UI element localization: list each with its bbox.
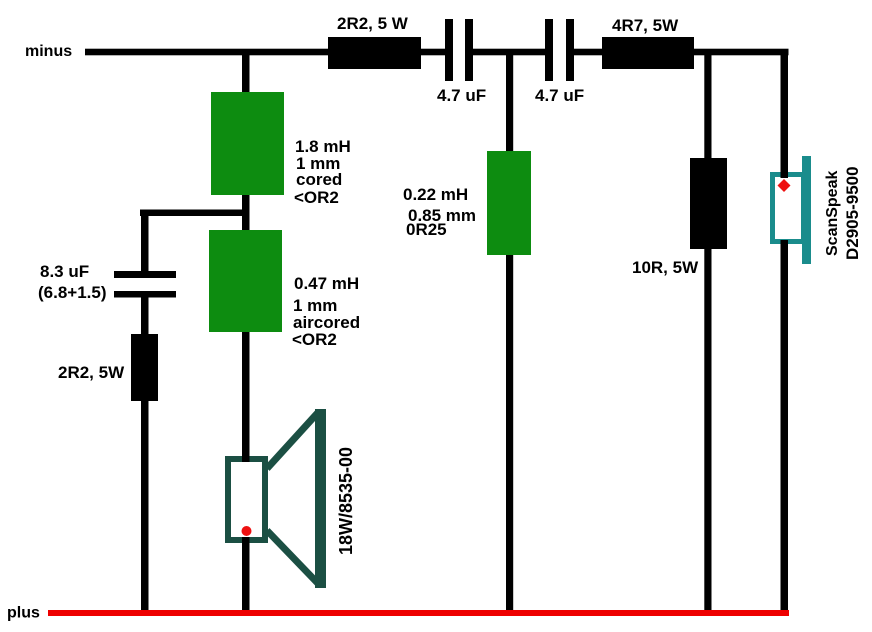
- wire: L3 to plus bus: [506, 253, 513, 616]
- wire: minus bus segment between capacitors: [471, 49, 548, 56]
- resistor 10R 5W: [690, 158, 727, 249]
- svg-text:8.3 uF: 8.3 uF: [40, 262, 89, 281]
- capacitor 8.3uF plate 2: [114, 291, 176, 298]
- wire: minus bus segment right: [572, 49, 789, 56]
- wire: vertical drop to resistor 10R: [704, 52, 711, 159]
- resistor 4R7 5W: [602, 37, 694, 69]
- svg-text:cored: cored: [296, 170, 342, 189]
- wire: capacitor 8.3uF to resistor 2R2 shunt: [141, 296, 149, 337]
- svg-text:D2905-9500: D2905-9500: [843, 166, 862, 260]
- svg-text:18W/8535-00: 18W/8535-00: [336, 447, 356, 555]
- wire: tweeter to plus bus: [781, 240, 789, 616]
- tweeter ScanSpeak D2905-9500 symbol: [773, 156, 812, 264]
- svg-text:10R, 5W: 10R, 5W: [632, 258, 699, 277]
- svg-text:4.7 uF: 4.7 uF: [437, 86, 486, 105]
- wire: minus bus segment left: [85, 49, 447, 56]
- svg-text:0.47 mH: 0.47 mH: [294, 274, 359, 293]
- svg-text:<OR2: <OR2: [294, 188, 339, 207]
- inductor L3 0.22mH (green): [487, 151, 531, 255]
- resistor 2R2 5W series (top): [328, 37, 421, 69]
- svg-text:minus: minus: [25, 43, 72, 60]
- capacitor 8.3uF plate 1: [114, 271, 176, 278]
- svg-text:2R2, 5W: 2R2, 5W: [58, 363, 125, 382]
- wire: woofer to plus bus: [242, 537, 250, 616]
- inductor L1 1.8mH (green): [211, 92, 284, 195]
- wire: resistor 2R2 shunt to plus bus: [141, 398, 149, 616]
- wire: vertical drop minus bus to tweeter: [781, 52, 789, 178]
- tweeter red dot: [778, 179, 791, 192]
- wire: RC shunt vertical to capacitor 8.3uF: [141, 210, 149, 272]
- svg-text:0.22 mH: 0.22 mH: [403, 185, 468, 204]
- wire: vertical drop minus bus to L1: [242, 52, 250, 94]
- capacitor 4.7uF first, plate 2: [465, 19, 473, 81]
- svg-text:<OR2: <OR2: [292, 330, 337, 349]
- wire: branch horizontal to RC shunt: [140, 210, 250, 217]
- inductor L2 0.47mH (green): [209, 230, 282, 332]
- wire: vertical drop minus bus to L3: [506, 52, 513, 153]
- svg-text:ScanSpeak: ScanSpeak: [824, 171, 841, 256]
- wire: L1 to L2: [242, 194, 250, 232]
- woofer 18W/8535-00 symbol: [228, 409, 326, 588]
- woofer red dot: [242, 526, 252, 536]
- wire: plus bus (red): [48, 610, 789, 616]
- capacitor 4.7uF first, plate 1: [445, 19, 453, 81]
- capacitor 4.7uF second, plate 1: [545, 19, 553, 81]
- svg-text:(6.8+1.5): (6.8+1.5): [38, 283, 107, 302]
- wire: L2 to woofer: [242, 330, 250, 462]
- svg-text:4.7 uF: 4.7 uF: [535, 86, 584, 105]
- resistor 2R2 5W shunt (left): [131, 334, 158, 401]
- capacitor 4.7uF second, plate 2: [566, 19, 574, 81]
- svg-text:plus: plus: [7, 605, 40, 622]
- wire: resistor 10R to plus bus: [704, 245, 711, 616]
- svg-text:0R25: 0R25: [406, 220, 447, 239]
- svg-text:4R7, 5W: 4R7, 5W: [612, 16, 679, 35]
- svg-text:2R2, 5 W: 2R2, 5 W: [337, 14, 409, 33]
